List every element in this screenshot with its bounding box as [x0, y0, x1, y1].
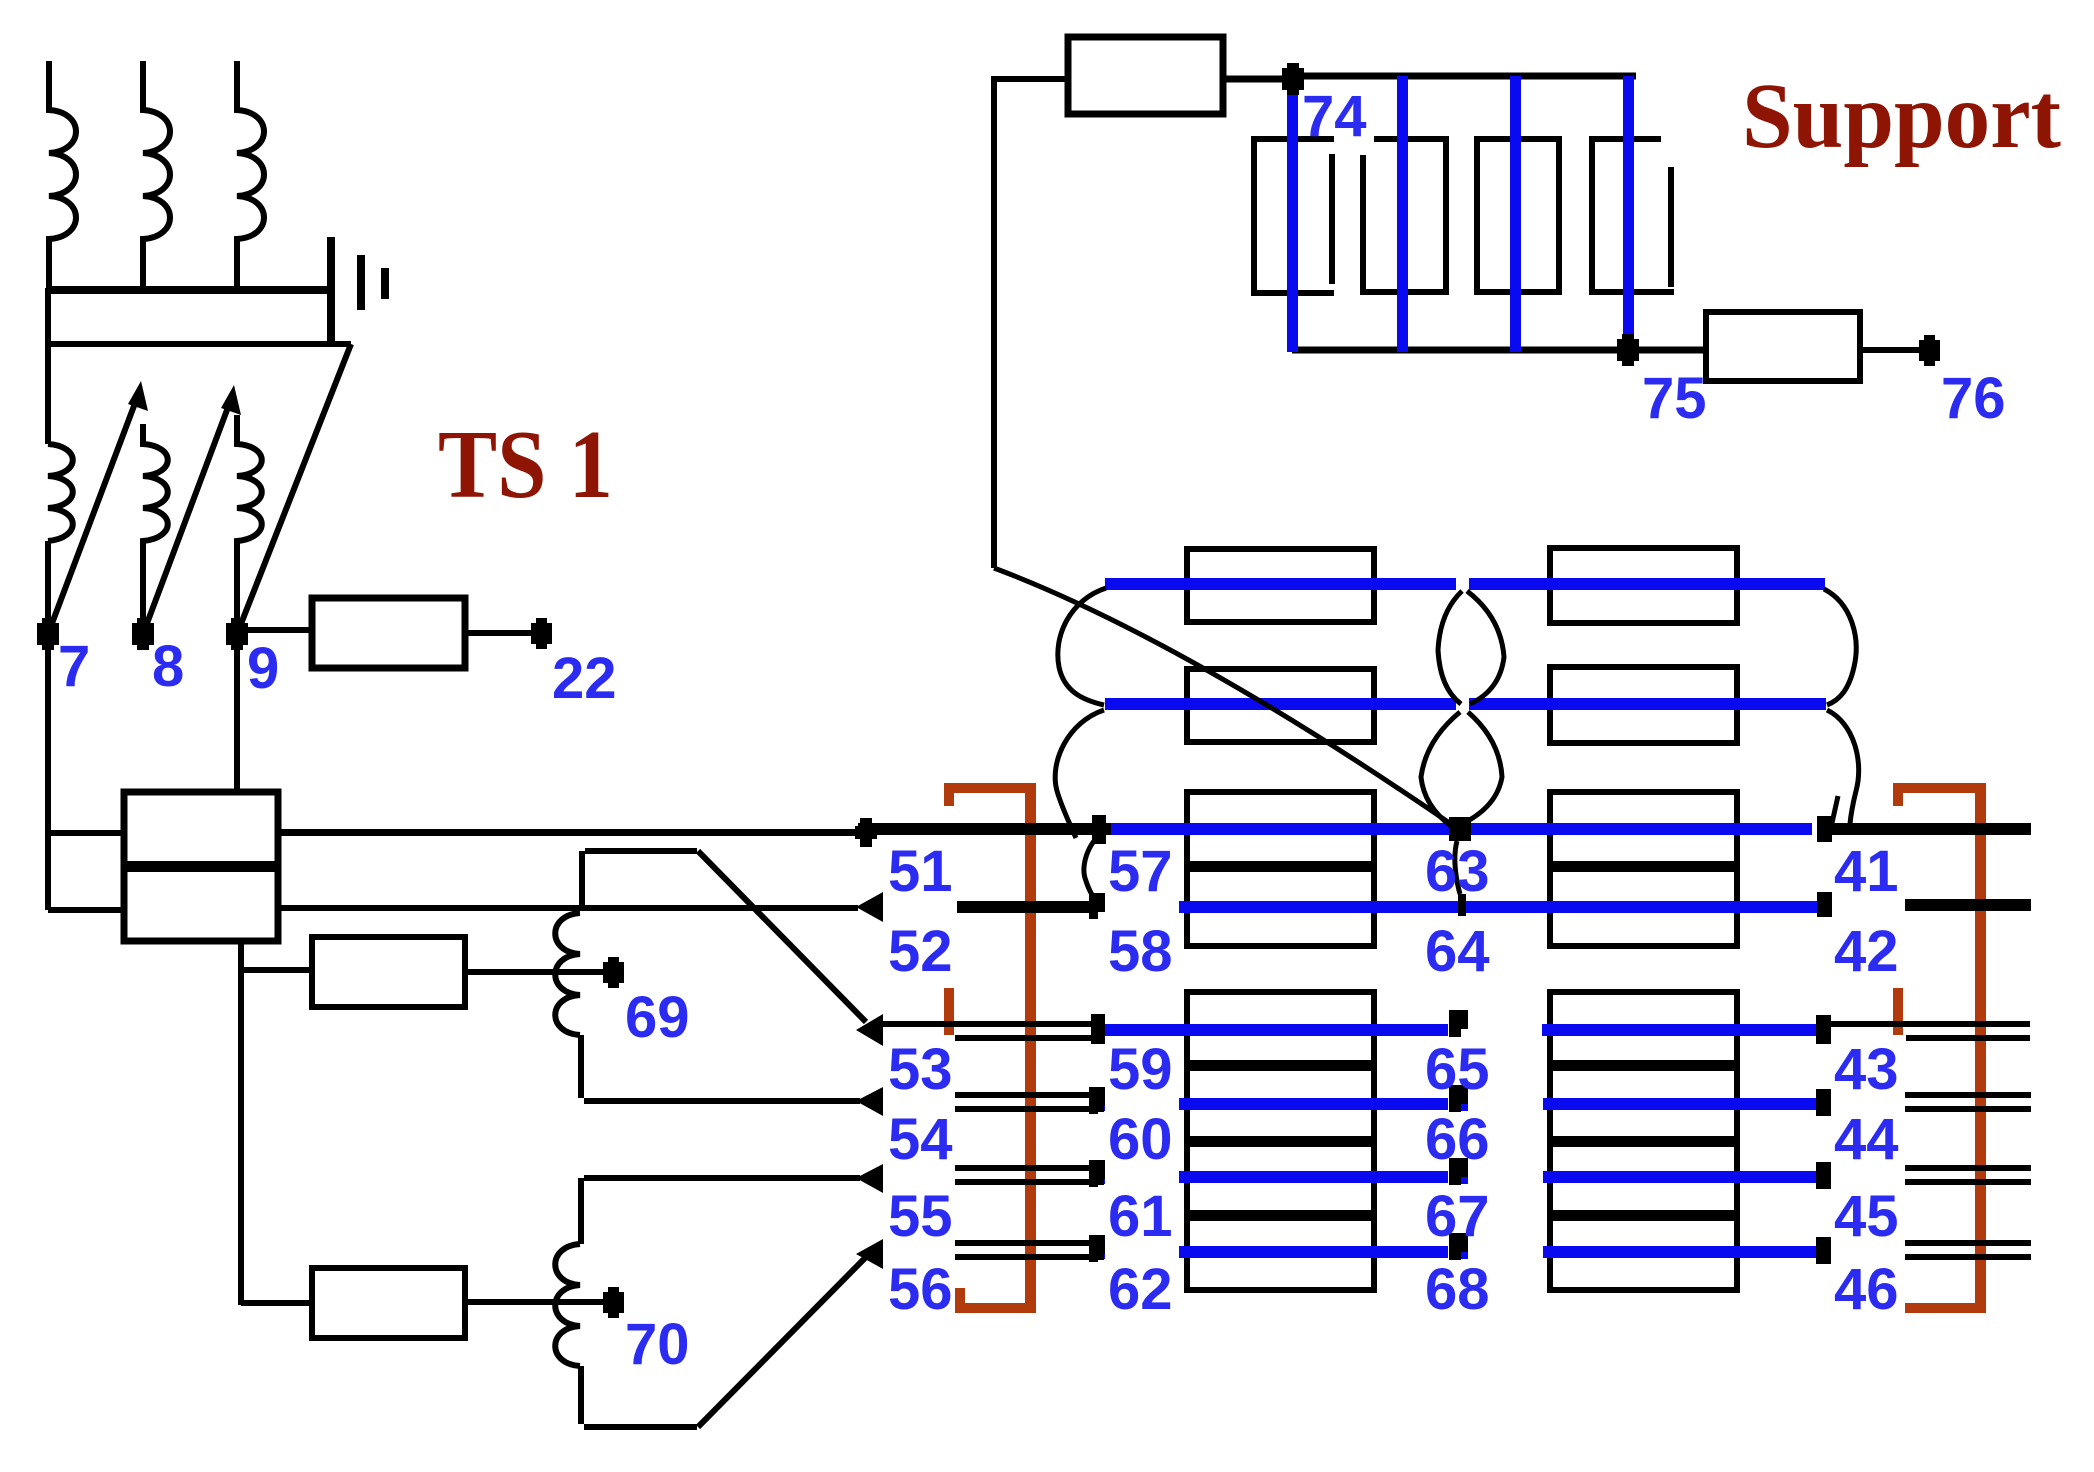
rail bar R3	[1550, 861, 1737, 872]
rail bar L4a	[1187, 1060, 1374, 1071]
track line F left upper	[955, 1092, 1089, 1098]
wire support to R75	[1628, 347, 1706, 353]
svg-text:46: 46	[1834, 1257, 1899, 1322]
catenary E right span	[1542, 1024, 1822, 1036]
anchor bracket left top stub	[944, 783, 954, 806]
svg-text:7: 7	[58, 634, 90, 699]
catenary H left span	[1179, 1246, 1448, 1258]
svg-text:53: 53	[888, 1037, 953, 1102]
terminal row E left	[1091, 1014, 1105, 1044]
support section coil 1	[1254, 139, 1334, 293]
track line H left lower	[955, 1254, 1104, 1260]
wire row56 diagonal feed	[698, 1257, 866, 1427]
track line E right upper	[1831, 1021, 2030, 1027]
svg-text:Support: Support	[1742, 65, 2061, 168]
track line H right upper	[1905, 1240, 2031, 1246]
catenary B right span	[1469, 698, 1826, 710]
wire node9 to resistor 22	[237, 627, 312, 633]
anchor bracket left top arm	[944, 783, 1036, 793]
terminal row F left	[1089, 1087, 1105, 1106]
svg-text:63: 63	[1425, 839, 1490, 904]
insulated overlap box R3	[1550, 792, 1737, 946]
TS1 transformer box	[124, 792, 278, 941]
svg-text:66: 66	[1425, 1107, 1490, 1172]
wire node9 down to TS1 box	[234, 640, 240, 792]
node 75	[1617, 339, 1639, 361]
wire winding 69 top branch	[585, 848, 697, 854]
feeder 75 blue riser 4	[1623, 76, 1634, 347]
feeder blue riser 3	[1510, 76, 1521, 352]
rail bar L3	[1187, 861, 1374, 872]
svg-text:58: 58	[1108, 919, 1173, 984]
transformer primary winding phase B	[143, 61, 170, 290]
tap winding phase B	[143, 424, 168, 628]
terminal row F right	[1816, 1089, 1831, 1116]
track line F right lower	[1905, 1106, 2031, 1112]
wire to resistor 70	[241, 1300, 312, 1306]
track line G left lower	[955, 1179, 1104, 1185]
insulated overlap box L3	[1187, 792, 1374, 946]
support section coil 4	[1592, 139, 1674, 292]
dropper curve C-D left	[1084, 834, 1100, 904]
svg-text:55: 55	[888, 1184, 953, 1249]
insulated overlap box L2	[1187, 669, 1374, 742]
svg-text:75: 75	[1642, 366, 1707, 431]
terminal row H mid	[1449, 1233, 1468, 1252]
dropper curve A-B right	[1824, 589, 1856, 705]
feeder C right span	[1471, 823, 1812, 835]
feeder C left span	[1111, 823, 1449, 835]
wire row53 diagonal feed	[698, 851, 866, 1022]
catenary G left span	[1179, 1171, 1448, 1183]
catenary H mid nub	[1460, 1250, 1468, 1259]
svg-text:42: 42	[1834, 919, 1899, 984]
svg-text:43: 43	[1834, 1037, 1899, 1102]
svg-text:61: 61	[1108, 1184, 1173, 1249]
svg-text:67: 67	[1425, 1184, 1490, 1249]
catenary D left span	[1179, 901, 1459, 913]
insulated overlap box R1	[1550, 548, 1737, 623]
dropper curve B-C right	[1827, 710, 1859, 824]
dropper strand C right	[1832, 796, 1838, 823]
ground	[327, 237, 335, 345]
arrowhead row52	[856, 892, 883, 922]
rail bar L4c	[1187, 1210, 1374, 1221]
booster winding 70	[555, 1244, 580, 1366]
svg-text:41: 41	[1834, 839, 1899, 904]
arrowhead row56	[856, 1239, 883, 1269]
catenary B left span	[1105, 698, 1456, 710]
anchor bracket left main post	[1025, 783, 1036, 1313]
track line E left upper	[880, 1021, 1094, 1027]
wire to resistor 69	[241, 967, 312, 973]
wire R75 to terminal 76	[1860, 347, 1929, 353]
insulated overlap box R2	[1550, 667, 1737, 743]
anchor bracket left bottom stub	[955, 1288, 965, 1313]
anchor bracket right top arm	[1893, 783, 1986, 793]
tap selector arrow from node 8	[143, 402, 230, 634]
resistor R69	[312, 937, 465, 1007]
anchor bracket left bottom arm	[955, 1303, 1036, 1313]
catenary H nub	[1097, 1250, 1105, 1259]
terminal 22	[531, 623, 552, 644]
wire winding 70 bottom branch	[581, 1366, 697, 1427]
resistor R74	[1068, 37, 1223, 114]
svg-text:9: 9	[247, 636, 279, 701]
track line E right lower	[1906, 1035, 2030, 1041]
catenary A left span	[1105, 578, 1456, 590]
wire TS1 upper winding feed	[48, 830, 124, 836]
node on feeder bus	[855, 826, 877, 839]
terminal row E mid	[1449, 1010, 1468, 1029]
svg-text:44: 44	[1834, 1107, 1899, 1172]
svg-text:22: 22	[552, 646, 617, 711]
svg-text:56: 56	[888, 1257, 953, 1322]
arrowhead row55	[856, 1164, 883, 1193]
wire left vertical node7 riser	[45, 288, 51, 910]
anchor bracket left middle stub	[944, 988, 954, 1035]
svg-text:59: 59	[1108, 1037, 1173, 1102]
dropper C-D mid	[1455, 841, 1460, 894]
transformer primary winding phase A (top left)	[49, 61, 76, 290]
transformer primary winding phase C	[237, 61, 264, 290]
support bottom bus wire	[1292, 347, 1706, 354]
catenary G right span	[1543, 1171, 1822, 1183]
catenary F left span	[1179, 1098, 1448, 1110]
anchor bracket right bottom arm	[1905, 1303, 1986, 1313]
svg-text:74: 74	[1302, 84, 1367, 149]
svg-text:60: 60	[1108, 1107, 1173, 1172]
svg-text:57: 57	[1108, 839, 1173, 904]
resistor R22	[312, 598, 465, 668]
svg-text:TS 1: TS 1	[438, 411, 613, 519]
svg-text:69: 69	[625, 985, 690, 1050]
track line G right lower	[1905, 1179, 2031, 1185]
catenary F nub	[1097, 1102, 1105, 1111]
track line G left upper	[955, 1165, 1089, 1171]
node 8	[132, 623, 154, 645]
tap winding phase C	[237, 415, 262, 628]
catenary D nub	[1095, 902, 1105, 912]
feeder blue riser 2	[1397, 76, 1408, 352]
terminal row E right	[1816, 1015, 1831, 1044]
wire resistor 69 to tap 69	[465, 969, 613, 975]
insulated overlap box L1	[1187, 549, 1374, 622]
rail bar L4b	[1187, 1136, 1374, 1147]
svg-text:68: 68	[1425, 1257, 1490, 1322]
catenary A right span	[1469, 578, 1825, 590]
dropper curve A-B left	[1058, 588, 1106, 705]
wire resistor 70 to tap 70	[465, 1299, 613, 1305]
node 9	[226, 623, 248, 645]
catenary H right span	[1543, 1246, 1822, 1258]
bus bar right of junction C	[1830, 823, 2031, 835]
terminal row H right	[1816, 1237, 1831, 1264]
junction C right	[1817, 816, 1832, 842]
stub row D mid	[1458, 894, 1466, 916]
svg-text:76: 76	[1941, 366, 2006, 431]
arrowhead row54	[856, 1087, 883, 1116]
feeder tap diagonal from node 74	[994, 568, 1451, 824]
svg-text:65: 65	[1425, 1037, 1490, 1102]
terminal row G left	[1089, 1160, 1105, 1179]
catenary G mid nub	[1460, 1175, 1468, 1184]
air gap lens B-C left branch	[1421, 712, 1460, 826]
svg-text:64: 64	[1425, 919, 1490, 984]
terminal row H left	[1089, 1235, 1105, 1254]
support section coil 2	[1363, 139, 1446, 292]
terminal row G right	[1816, 1162, 1831, 1189]
arrowhead tap selector B	[221, 385, 241, 415]
terminal row F mid	[1449, 1085, 1468, 1104]
svg-text:45: 45	[1834, 1184, 1899, 1249]
track line F left lower	[955, 1106, 1104, 1112]
resistor R75	[1706, 312, 1860, 381]
anchor bracket right middle stub	[1893, 988, 1903, 1035]
air gap lens A-B right branch	[1467, 591, 1504, 704]
rail link row42 right	[1905, 899, 2031, 911]
resistor R70	[312, 1268, 465, 1338]
tap winding phase A (lower left)	[48, 444, 73, 541]
wire R74 right lead	[1223, 76, 1293, 83]
anchor bracket right top stub	[1893, 783, 1903, 806]
track line E left lower	[955, 1035, 1103, 1041]
terminal 76	[1919, 340, 1940, 361]
wire winding 69 bottom to row54	[581, 1035, 860, 1101]
rail bar R4c	[1550, 1210, 1737, 1221]
dropper curve B-C left	[1055, 710, 1104, 838]
arrowhead row53	[856, 1014, 883, 1046]
catenary F mid nub	[1460, 1102, 1468, 1111]
wire TS1 bottom to resistors	[238, 941, 244, 1305]
node 74	[1282, 68, 1304, 90]
svg-text:54: 54	[888, 1107, 953, 1172]
tap selector arrow from node 9 to head wire	[237, 344, 351, 634]
wire R74 left lead	[994, 79, 1068, 568]
svg-text:8: 8	[152, 634, 184, 699]
air gap lens B-C right branch	[1464, 712, 1502, 823]
air gap lens A-B left branch	[1438, 591, 1462, 704]
TS1 transformer core bar	[124, 861, 278, 872]
bus bar TS1 output thin	[278, 829, 866, 836]
track line F right upper	[1905, 1092, 2031, 1098]
tap selector arrow from node 7	[48, 398, 137, 634]
insulated overlap box L4	[1187, 992, 1374, 1290]
track line H left upper	[955, 1240, 1089, 1246]
svg-text:52: 52	[888, 919, 953, 984]
junction C left	[1092, 815, 1106, 844]
tap 70 junction	[603, 1292, 624, 1313]
terminal row G mid	[1449, 1158, 1468, 1177]
node 7	[37, 623, 59, 645]
terminal row D right	[1817, 892, 1832, 917]
catenary E left span	[1104, 1024, 1448, 1036]
wire TS1 lower winding feed	[48, 907, 124, 913]
wire row55 to winding 70	[581, 1178, 860, 1244]
track line G right upper	[1905, 1165, 2031, 1171]
tap 69 junction	[603, 962, 624, 983]
svg-text:51: 51	[888, 839, 953, 904]
primary neutral bus wire	[46, 286, 331, 294]
insulated overlap box R4	[1550, 992, 1737, 1290]
svg-text:70: 70	[625, 1312, 690, 1377]
arrowhead tap selector A	[128, 381, 148, 411]
terminal row D left	[1089, 893, 1105, 912]
rail link row52 left	[957, 901, 1089, 913]
rail bar R4b	[1550, 1136, 1737, 1147]
rail bar R4a	[1550, 1060, 1737, 1071]
secondary head wire	[48, 341, 351, 347]
junction C mid	[1449, 817, 1471, 841]
feeder 74 blue riser 1	[1287, 82, 1298, 352]
wire resistor 22 to terminal 22	[465, 630, 540, 636]
anchor bracket right main post	[1975, 783, 1986, 1313]
catenary D right span	[1466, 901, 1822, 913]
catenary F right span	[1543, 1098, 1822, 1110]
support top bus wire	[1293, 73, 1636, 80]
track line H right lower	[1905, 1254, 2031, 1260]
wire TS1 output row52	[278, 905, 858, 911]
svg-text:62: 62	[1108, 1257, 1173, 1322]
bus bar TS1 feeder thick	[858, 823, 1111, 835]
catenary G nub	[1097, 1175, 1105, 1184]
booster winding 69	[555, 913, 580, 1035]
support section coil 3	[1477, 139, 1559, 292]
